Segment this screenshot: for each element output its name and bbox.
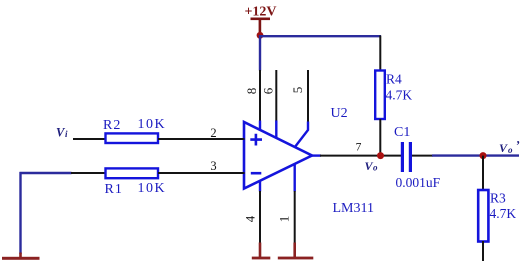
op-amp U1 stub: pin 1 into body (blue) [294, 164, 296, 192]
svg-text:10K: 10K [138, 117, 167, 132]
node: Vo junction dot [377, 152, 384, 159]
svg-text:R2: R2 [103, 118, 121, 133]
node: Vo' junction dot [480, 152, 487, 159]
svg-text:2: 2 [210, 126, 216, 140]
wire: bottom-left horizontal (blue) [20, 172, 72, 174]
pin 1 line (black) [294, 191, 296, 244]
svg-text:4: 4 [243, 215, 258, 222]
svg-text:5: 5 [290, 87, 305, 94]
wire: C1 to right (black) [412, 155, 433, 157]
op-amp U1 stub: pin 8 into body (blue) [259, 121, 261, 131]
resistor R2 body [106, 133, 159, 143]
resistor R4 body [375, 71, 385, 120]
wire: R2 to pin 2 (black) [158, 138, 245, 140]
pin 4 line (black) [259, 191, 261, 244]
ground: left bar (red) [2, 257, 40, 260]
svg-text:R1: R1 [105, 182, 123, 197]
wire: output to C1 (black) [320, 155, 401, 157]
wire: to R1 (black) [71, 172, 106, 174]
wire: bottom-left vertical (blue) [19, 172, 21, 254]
svg-text:10K: 10K [138, 181, 167, 196]
wire: R4 bottom pin to output node (black) [379, 119, 381, 156]
wire: Vo' node down to R3 (black) [482, 156, 484, 191]
resistor R1 body [106, 168, 159, 178]
op-amp U1 stub: pin 6 into body (blue) [275, 121, 277, 139]
svg-text:8: 8 [244, 88, 259, 95]
svg-text:7: 7 [356, 142, 362, 154]
pin 8 line (black) [259, 70, 261, 122]
op-amp plus mark [250, 134, 262, 146]
svg-text:1: 1 [277, 216, 292, 223]
power symbol +12V bar [251, 18, 271, 21]
pin 6 line (black) [275, 70, 277, 122]
op-amp U1 stub: pin 5 into body (blue, with bend) [295, 122, 309, 148]
ground: pin 4 stem (red) [259, 243, 262, 258]
op-amp U1 stub: pin 4 into body (blue) [259, 181, 261, 192]
svg-text:R3: R3 [490, 191, 506, 206]
node: +12V junction dot [257, 32, 264, 39]
pin 5 line (black) [307, 70, 309, 123]
svg-text:U2: U2 [331, 106, 348, 121]
wire: right output segment (blue) [432, 154, 519, 156]
ground: pin 1 bar (red) [278, 257, 314, 260]
wire: R3 bottom pin off page (black) [482, 241, 484, 261]
capacitor C1 left plate [401, 142, 404, 172]
svg-text:0.001uF: 0.001uF [396, 175, 441, 190]
svg-text:’: ’ [516, 139, 520, 153]
resistor R3 body [478, 190, 488, 242]
svg-text:V: V [499, 141, 508, 155]
wire: R1 to pin 3 (black) [158, 172, 245, 174]
svg-text:3: 3 [210, 159, 216, 173]
svg-text:o: o [508, 145, 513, 155]
svg-text:6: 6 [261, 87, 276, 94]
power symbol +12V stem [259, 19, 262, 35]
svg-text:C1: C1 [394, 125, 410, 140]
op-amp U2 triangle LM311 [244, 122, 312, 189]
capacitor C1 right plate [409, 142, 412, 172]
ground: left stem (red) [19, 253, 22, 258]
svg-text:4.7K: 4.7K [386, 88, 413, 103]
wire: +12V drop to pin 8 (blue) [259, 35, 261, 71]
op-amp output stub (blue) [311, 154, 321, 156]
svg-text:LM311: LM311 [333, 201, 374, 216]
wire: +12V horizontal rail (blue) [259, 35, 381, 37]
op-amp minus mark [251, 172, 261, 175]
ground: pin 4 bar (red) [252, 257, 270, 260]
svg-text:4.7K: 4.7K [490, 206, 517, 221]
ground: pin 1 stem (red) [293, 243, 296, 258]
wire: rail down to R4 top pin (black) [379, 36, 381, 72]
wire: Vi to R2 (black) [73, 138, 106, 140]
svg-text:R4: R4 [386, 72, 402, 87]
svg-text:o: o [373, 163, 378, 173]
svg-text:+12V: +12V [244, 5, 276, 20]
